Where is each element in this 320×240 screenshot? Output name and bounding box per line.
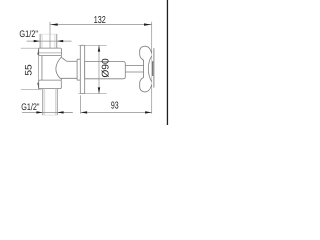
bottom pipe thread lines [44, 89, 46, 115]
arrow G1/2 bottom left (points right at pipe left edge) [36, 111, 42, 113]
bottom pipe end [43, 114, 57, 116]
valve body left wall [41, 56, 43, 81]
handle boss front face line [153, 48, 155, 87]
dimension 55 line [38, 48, 40, 89]
arrow 93 right [145, 111, 151, 113]
stem neck bottom line [125, 71, 143, 73]
dimension 132 line [50, 24, 152, 26]
dimension O90 extension tick bottom [78, 93, 106, 95]
handle boss dark edge band [152, 61, 154, 76]
arrow 132 left [50, 23, 58, 25]
valve body bottom nut [39, 80, 62, 89]
svg-text:132: 132 [94, 15, 106, 26]
extension line of dim 93 left (disc back face) [80, 95, 82, 114]
arrow G1/2 bottom right (points left at pipe right edge) [57, 111, 63, 113]
stem housing top edge [67, 60, 77, 62]
arrow 55 up [37, 48, 39, 54]
valve body right stub above bottom nut [60, 78, 62, 80]
bottom pipe G1/2 outer walls [42, 89, 44, 116]
dimension 55 extension tick top [21, 47, 42, 49]
dimension O90 extension tick top [78, 44, 106, 46]
collar bottom edge [77, 79, 80, 81]
escutcheon disc (O90 rosette) [80, 45, 84, 93]
wire: extension line right (handle front face, shared by dims 132 and 93) [151, 22, 153, 114]
stem cone top diagonal [62, 58, 67, 62]
valve body top nut [39, 48, 62, 55]
dimension G1/2 top line [27, 40, 72, 42]
cross handle side profile (top knob, waist, bottom knob) [140, 46, 152, 92]
svg-text:93: 93 [111, 101, 119, 112]
stem housing bottom edge [60, 77, 77, 79]
top pipe end [40, 33, 57, 35]
wire: extension line of dim 132 left (pipe axis) [49, 22, 51, 48]
valve body right wall with concave waist arc [56, 56, 62, 79]
svg-text:55: 55 [24, 64, 35, 75]
sleeve block behind handle [85, 62, 126, 79]
handle boss lens left arc [148, 56, 151, 81]
dimension G1/2 bottom line left part [22, 111, 73, 113]
collar top edge [77, 58, 80, 60]
svg-text:Ø90: Ø90 [101, 58, 112, 78]
dimension 55 extension tick bottom [21, 88, 42, 90]
dimension G1/2 bottom line right part [57, 111, 72, 113]
top nut internal line [39, 52, 62, 54]
arrow 55 down [37, 83, 39, 89]
arrow O90 up [98, 45, 100, 51]
arrow G1/2 top right (points left at pipe right edge) [57, 40, 63, 42]
stem neck top line [125, 64, 143, 66]
top pipe thread lines [41, 35, 43, 49]
drawing frame border right [167, 0, 168, 125]
dimension O90 line [98, 45, 100, 93]
top pipe G1/2 outer walls [39, 34, 41, 48]
svg-text:G1/2": G1/2" [19, 29, 38, 40]
collar face line [76, 59, 78, 80]
arrow G1/2 top left (points right at pipe left edge) [34, 40, 40, 42]
arrow 93 left [81, 111, 87, 113]
arrow O90 down [98, 87, 100, 93]
dimension 93 line [81, 111, 152, 113]
arrow 132 right [144, 23, 152, 25]
